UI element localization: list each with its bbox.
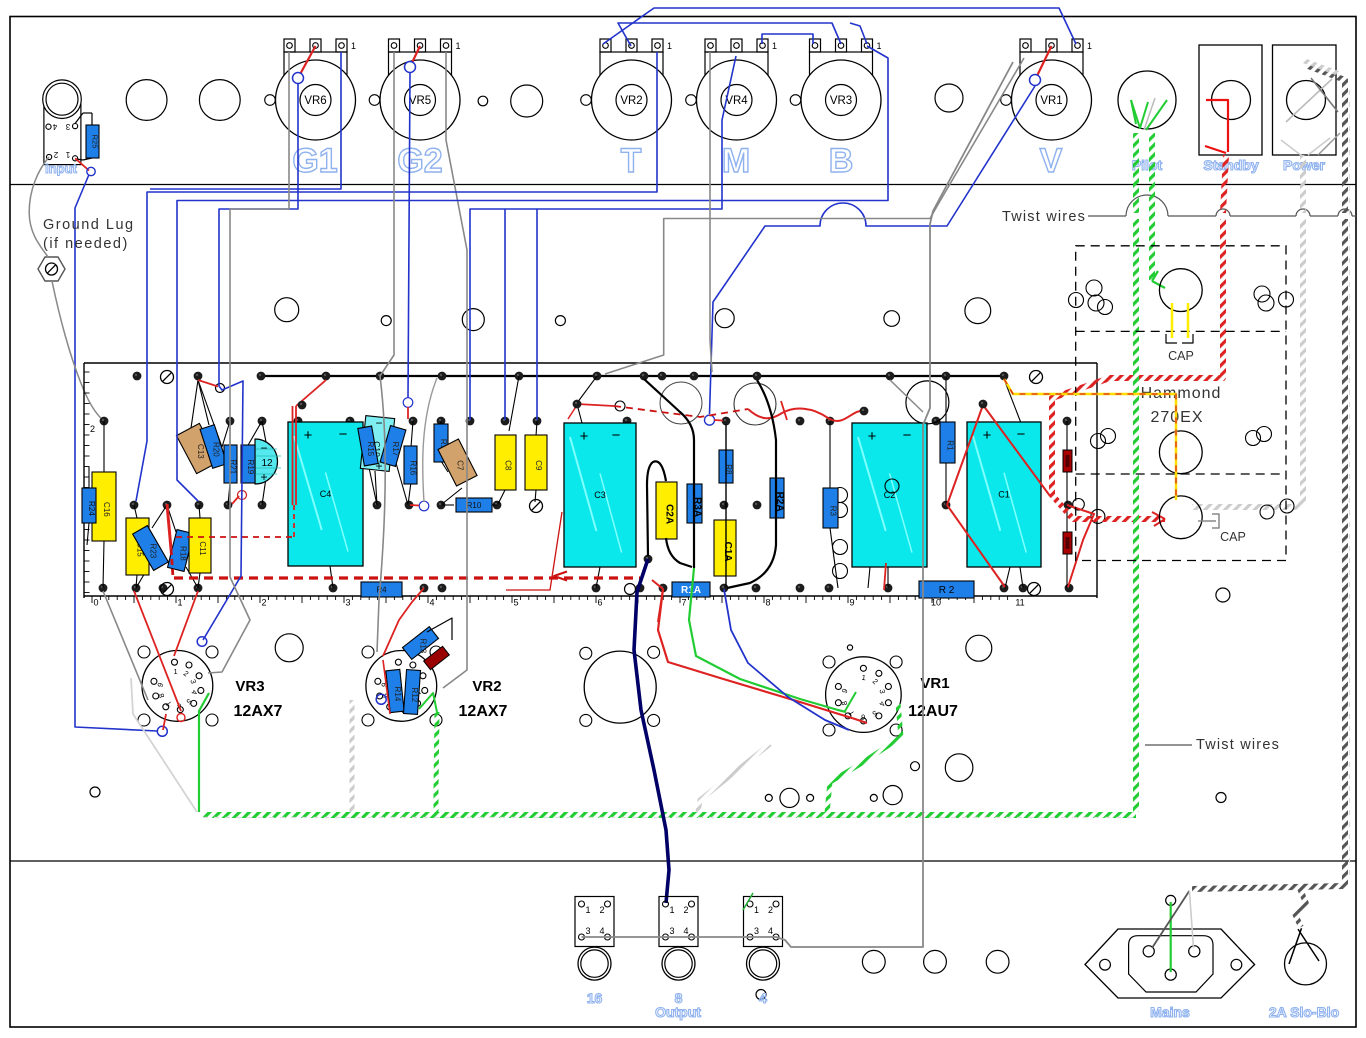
svg-text:1: 1: [876, 41, 881, 51]
svg-text:4: 4: [759, 990, 767, 1006]
svg-text:16: 16: [587, 990, 603, 1006]
svg-text:5: 5: [513, 598, 518, 608]
wire yellow tracer: [1004, 379, 1176, 500]
svg-text:3: 3: [65, 122, 70, 131]
capacitor C14 12uF: [255, 439, 281, 484]
wire: [536, 209, 538, 420]
svg-text:1: 1: [65, 150, 70, 159]
extra dots: [298, 400, 988, 416]
resistor R18: [168, 530, 194, 572]
svg-text:3: 3: [754, 926, 759, 936]
wire: [470, 56, 736, 420]
svg-text:12AU7: 12AU7: [908, 703, 958, 720]
eyelet in C2: [885, 479, 899, 493]
svg-text:2: 2: [768, 905, 773, 915]
svg-text:R15: R15: [366, 442, 375, 457]
svg-text:−: −: [375, 416, 382, 430]
tube socket VR1: [826, 657, 902, 733]
wire: [743, 893, 753, 910]
svg-text:R4: R4: [376, 585, 387, 594]
socket VR2 mounting holes: [362, 646, 442, 726]
capacitor C11: [189, 518, 211, 573]
resistor R1A: [672, 582, 710, 597]
resistor R4: [361, 582, 402, 597]
chassis holes behind board: [660, 381, 949, 425]
capacitor C7: [438, 439, 477, 486]
resistor R17: [380, 426, 406, 467]
wire: [52, 281, 104, 421]
wire: [131, 678, 197, 812]
label T: [621, 142, 642, 180]
wire: [1192, 219, 1345, 889]
wire: [377, 52, 394, 652]
svg-text:C8: C8: [504, 460, 513, 471]
resistor R24: [82, 488, 96, 523]
wire: [443, 52, 467, 688]
svg-text:1: 1: [455, 41, 460, 51]
label VR3: [235, 678, 264, 695]
capacitor C15: [126, 518, 149, 575]
wire: [408, 72, 410, 398]
svg-text:7: 7: [681, 598, 686, 608]
svg-text:R24: R24: [87, 501, 96, 516]
svg-text:1: 1: [177, 598, 182, 608]
label CAP 2: [1220, 530, 1246, 544]
label Input: [45, 161, 77, 176]
wire arrow: [1152, 512, 1165, 526]
node eyelet VR3 pin7: [157, 726, 167, 736]
label V: [1040, 142, 1063, 180]
svg-text:+: +: [983, 427, 992, 444]
svg-text:4: 4: [429, 598, 434, 608]
wire: [1349, 90, 1351, 880]
svg-text:C13: C13: [196, 444, 205, 459]
svg-text:2: 2: [261, 598, 266, 608]
svg-text:R18: R18: [179, 546, 188, 561]
resistor R23: [133, 526, 169, 571]
wire: [762, 34, 813, 44]
svg-text:R13: R13: [419, 639, 428, 654]
svg-text:−: −: [1017, 426, 1026, 443]
resistor R15: [358, 426, 378, 466]
resistor R16: [404, 446, 418, 484]
wire green twisted run: [203, 812, 1136, 818]
svg-text:11: 11: [1015, 598, 1024, 608]
capacitor C3: [564, 423, 636, 567]
turret board: [84, 363, 1097, 608]
wire power dark twisted: [1308, 66, 1345, 213]
svg-text:G2: G2: [397, 142, 442, 180]
svg-text:1: 1: [754, 905, 759, 915]
potentiometer VR1: [1001, 39, 1092, 140]
wire: [1152, 891, 1189, 948]
svg-text:R19: R19: [246, 460, 255, 475]
svg-text:VR3: VR3: [235, 678, 264, 695]
label 2A Slo-Blo: [1269, 1004, 1339, 1020]
wire: [427, 618, 452, 640]
wire: [1302, 60, 1340, 74]
svg-text:10: 10: [931, 598, 941, 608]
potentiometer VR4: [686, 39, 777, 140]
wire: [75, 175, 157, 732]
svg-text:9: 9: [849, 598, 854, 608]
ground lug (if needed): [38, 217, 135, 281]
svg-text:Twist wires: Twist wires: [1002, 209, 1086, 225]
svg-text:VR1: VR1: [1040, 95, 1062, 107]
label VR1: [920, 675, 949, 692]
svg-text:M: M: [722, 142, 750, 180]
svg-text:G1: G1: [292, 142, 337, 180]
wire: [845, 692, 856, 711]
wire: [658, 589, 867, 723]
svg-text:R20: R20: [212, 442, 221, 457]
svg-text:Standby: Standby: [1203, 157, 1258, 173]
wire: [647, 461, 666, 556]
socket VR3 mounting holes: [138, 646, 218, 726]
svg-text:+: +: [304, 427, 313, 444]
capacitor C16: [92, 472, 116, 541]
resistor R8: [719, 450, 733, 483]
label 12AU7: [908, 703, 958, 720]
label VR2: [472, 678, 501, 695]
svg-text:0: 0: [93, 598, 98, 608]
resistor R11: [434, 424, 448, 462]
wire power light twisted: [1300, 155, 1306, 213]
svg-text:R16: R16: [409, 461, 418, 476]
svg-text:C4: C4: [320, 489, 332, 499]
capacitor C2A: [656, 482, 677, 539]
wire: [203, 84, 298, 640]
wire: [725, 424, 727, 587]
wire: [644, 379, 694, 568]
wire: [208, 52, 289, 673]
svg-text:C7: C7: [456, 460, 465, 471]
svg-text:C3: C3: [594, 490, 606, 500]
wire: [423, 378, 437, 502]
svg-text:1: 1: [669, 905, 674, 915]
capacitor C1A: [714, 520, 736, 576]
node eyelet: [197, 637, 207, 647]
potentiometer VR2: [581, 39, 672, 140]
label G1: [292, 142, 337, 180]
svg-text:C11: C11: [198, 541, 207, 556]
eyelets on board: [216, 384, 715, 511]
transformer outline: [1076, 246, 1286, 561]
svg-text:2A Slo-Blo: 2A Slo-Blo: [1269, 1004, 1339, 1020]
potentiometer VR3: [790, 39, 881, 140]
wire: [698, 744, 770, 812]
svg-text:8: 8: [765, 598, 770, 608]
wire: [890, 380, 923, 412]
svg-text:R14: R14: [393, 687, 402, 702]
capacitor C1: [967, 422, 1041, 567]
svg-text:4: 4: [768, 926, 773, 936]
resistor R10: [456, 498, 492, 512]
capacitor lead wires: [1166, 303, 1193, 343]
wire: [134, 591, 181, 711]
svg-text:Twist wires: Twist wires: [1196, 737, 1280, 753]
svg-text:2: 2: [90, 424, 95, 434]
wire: [1295, 889, 1306, 927]
svg-text:B: B: [829, 142, 854, 180]
node eyelet VR3 pin6: [177, 714, 185, 722]
svg-text:VR3: VR3: [830, 95, 852, 107]
wire: [504, 209, 506, 420]
wire: [177, 46, 888, 501]
wire: [259, 375, 1004, 377]
svg-text:3: 3: [585, 926, 590, 936]
hole pair mid-bottom: [580, 646, 660, 726]
label B: [829, 142, 854, 180]
wire: [1133, 219, 1139, 812]
wire: [1052, 219, 1223, 519]
wire: [727, 380, 776, 588]
wire: [618, 23, 841, 46]
wire: [827, 704, 901, 813]
svg-text:6: 6: [597, 598, 602, 608]
label Power: [1283, 157, 1326, 173]
chassis holes: [90, 80, 1230, 1000]
svg-text:+: +: [868, 428, 877, 445]
capacitor C9: [525, 435, 547, 490]
svg-text:Input: Input: [45, 161, 77, 176]
svg-text:12AX7: 12AX7: [459, 703, 508, 720]
label 270EX: [1150, 409, 1203, 426]
svg-text:1: 1: [667, 41, 672, 51]
tube socket VR2: [366, 651, 437, 722]
svg-text:VR2: VR2: [472, 678, 501, 695]
node eyelet VR2: [376, 694, 386, 704]
label Standby: [1203, 157, 1258, 173]
red wires on board: [167, 380, 1094, 622]
wire: [710, 86, 1036, 414]
label Pilot: [1132, 157, 1163, 173]
twist wires note: [1002, 195, 1356, 225]
eyelet column: [833, 488, 848, 579]
transformer mounting holes: [1069, 280, 1295, 519]
svg-text:C1A: C1A: [722, 542, 733, 562]
wire: [1170, 902, 1172, 972]
cap pointer: [1198, 514, 1219, 528]
svg-text:R12: R12: [410, 688, 419, 703]
standby switch: [1199, 45, 1262, 155]
resistor R13: [402, 627, 438, 660]
node input eyelet: [87, 167, 95, 175]
label G2: [397, 142, 442, 180]
wire pilot green twisted b: [1149, 133, 1155, 280]
wire: [174, 591, 198, 656]
capacitor C2: [852, 423, 927, 567]
svg-text:−: −: [903, 427, 912, 444]
mains connector: [1085, 895, 1255, 998]
svg-text:2: 2: [683, 905, 688, 915]
wire: [436, 712, 437, 813]
svg-text:C2A: C2A: [664, 504, 675, 524]
svg-text:R23: R23: [149, 544, 158, 559]
label 12AX7 b: [459, 703, 508, 720]
wire: [923, 62, 1013, 944]
potentiometer VR5: [369, 39, 460, 140]
svg-text:−: −: [612, 427, 621, 444]
resistor R27: [1063, 450, 1072, 472]
component leads: [87, 376, 1067, 588]
svg-text:R3: R3: [829, 506, 838, 517]
svg-text:12AX7: 12AX7: [234, 703, 283, 720]
wire: [383, 660, 390, 714]
svg-text:CAP: CAP: [1168, 349, 1194, 363]
svg-text:R10: R10: [467, 501, 482, 510]
wire: [710, 52, 712, 372]
capacitor C4: [288, 422, 363, 566]
svg-text:Output: Output: [655, 1004, 701, 1020]
svg-text:VR1: VR1: [920, 675, 949, 692]
wire arrow2: [1152, 271, 1165, 288]
wire: [582, 937, 924, 947]
capacitor C8: [495, 435, 516, 490]
wire: [29, 157, 49, 257]
label Output: [655, 1004, 701, 1020]
wire: [103, 591, 148, 700]
output jack 4 ohm: [744, 897, 783, 1007]
svg-text:12: 12: [261, 458, 273, 469]
resistor R25: [86, 125, 100, 158]
svg-text:R17: R17: [391, 442, 400, 457]
svg-text:C1: C1: [998, 489, 1010, 499]
svg-text:2: 2: [599, 905, 604, 915]
resistor R14: [386, 669, 404, 712]
svg-text:1: 1: [772, 41, 777, 51]
svg-text:4: 4: [52, 122, 57, 131]
label 12AX7: [234, 703, 283, 720]
wire: [1192, 219, 1303, 507]
svg-text:VR5: VR5: [409, 95, 431, 107]
wire: [1004, 379, 1176, 500]
svg-text:Mains: Mains: [1150, 1004, 1190, 1020]
wire: [724, 589, 849, 730]
wire: [383, 588, 424, 656]
svg-text:1: 1: [351, 41, 356, 51]
socket VR1 mounting holes: [823, 656, 902, 736]
svg-text:4: 4: [683, 926, 688, 936]
svg-text:4: 4: [599, 926, 604, 936]
svg-text:+: +: [580, 428, 589, 445]
svg-text:1: 1: [585, 905, 590, 915]
svg-text:VR4: VR4: [725, 95, 748, 107]
svg-text:−: −: [260, 441, 267, 455]
turret screws: [161, 371, 1043, 596]
wire: [136, 52, 657, 501]
resistor R1: [940, 422, 955, 463]
wire: [605, 58, 1024, 374]
wire standby red twisted: [1223, 155, 1226, 213]
svg-text:C9: C9: [534, 460, 543, 471]
eyelets right of board: [1073, 429, 1116, 524]
wire: [1189, 891, 1193, 948]
resistor R3A: [687, 484, 703, 523]
wire: [666, 538, 692, 567]
svg-text:3: 3: [345, 598, 350, 608]
resistor R20: [200, 425, 227, 469]
label CAP: [1168, 349, 1194, 363]
wire: [150, 52, 341, 189]
wire: [634, 559, 669, 903]
svg-text:R1: R1: [946, 440, 955, 451]
svg-text:+: +: [260, 470, 267, 484]
label twist wires 2: [1145, 737, 1280, 753]
svg-text:1: 1: [173, 667, 177, 676]
potentiometer VR6: [265, 39, 356, 140]
wire: [199, 693, 209, 812]
svg-text:VR2: VR2: [620, 95, 642, 107]
pilot lamp: [1118, 71, 1176, 130]
resistor R2A: [770, 478, 785, 518]
svg-text:T: T: [621, 142, 642, 180]
wire: [203, 817, 1136, 819]
wire: [163, 714, 166, 730]
wire: [689, 568, 846, 712]
wire: [850, 23, 867, 44]
wire: [419, 693, 437, 712]
capacitor C10: [360, 416, 394, 473]
turret dots: [99, 372, 1074, 593]
fuse holder: [1285, 928, 1327, 985]
label Hammond: [1141, 385, 1222, 402]
power switch: [1273, 45, 1341, 156]
input jack J1: [43, 80, 92, 165]
resistor R3: [823, 488, 838, 528]
output jack 16 ohm: [575, 897, 614, 1007]
diode at VR2: [424, 646, 450, 669]
wire: [603, 8, 1076, 44]
svg-text:R25: R25: [91, 135, 100, 149]
svg-text:R 2: R 2: [939, 585, 955, 596]
svg-text:3: 3: [669, 926, 674, 936]
output jack 8 ohm: [659, 897, 698, 1007]
label Mains: [1150, 1004, 1190, 1020]
svg-text:−: −: [339, 426, 348, 443]
svg-text:C16: C16: [102, 502, 111, 517]
resistor R2: [919, 581, 974, 598]
resistor R12: [403, 670, 420, 715]
svg-text:2: 2: [53, 150, 58, 159]
svg-text:VR6: VR6: [304, 95, 326, 107]
wire: [350, 700, 355, 812]
svg-text:V: V: [1040, 142, 1063, 180]
svg-text:Ground Lug: Ground Lug: [43, 217, 135, 233]
wire pilot green twisted a: [1133, 133, 1139, 213]
capacitor C13: [176, 423, 219, 473]
resistor R28: [1063, 532, 1072, 554]
resistor R21: [224, 445, 238, 483]
svg-text:(if needed): (if needed): [43, 236, 129, 252]
svg-text:CAP: CAP: [1220, 530, 1246, 544]
svg-text:C2: C2: [884, 490, 896, 500]
transformer bell holes: [1159, 269, 1202, 539]
eyelet: [625, 584, 636, 595]
label M: [722, 142, 750, 180]
tube socket VR3: [142, 651, 213, 722]
resistor R19: [241, 445, 255, 483]
wire: [75, 158, 89, 170]
svg-text:1: 1: [1087, 41, 1092, 51]
